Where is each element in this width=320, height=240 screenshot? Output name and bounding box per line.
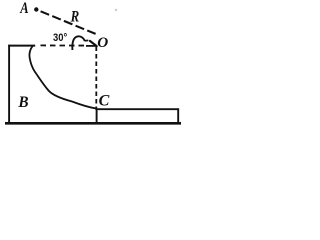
svg-text:30°: 30° bbox=[53, 32, 67, 44]
svg-text:B: B bbox=[17, 94, 28, 111]
svg-text:A: A bbox=[19, 0, 28, 17]
svg-text:R: R bbox=[70, 9, 79, 26]
svg-text:C: C bbox=[99, 93, 110, 110]
svg-text:O: O bbox=[97, 34, 108, 51]
